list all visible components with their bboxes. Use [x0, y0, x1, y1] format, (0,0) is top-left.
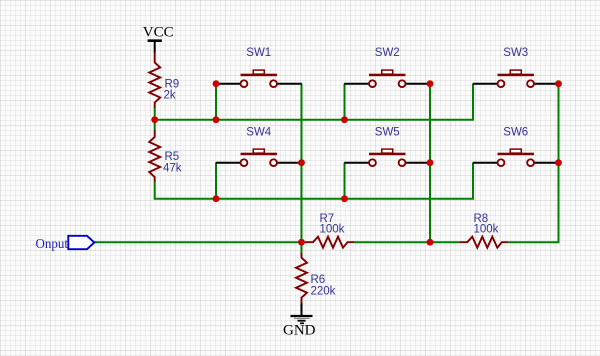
junction bus2 x=216: [213, 195, 220, 202]
svg-text:SW1: SW1: [246, 47, 271, 59]
junction at SW4 right: [298, 159, 305, 166]
switch SW4: [216, 149, 302, 166]
switch SW3: [473, 70, 559, 87]
wire SW1 left vertical: [215, 84, 217, 120]
port Onput: [36, 236, 95, 252]
svg-text:R6: R6: [311, 274, 326, 286]
wire SW5 left vertical: [344, 163, 346, 199]
svg-text:SW3: SW3: [503, 47, 528, 59]
wire vertical x=558.5 from SW3 right to main bus corner: [508, 84, 558, 243]
wire vertical x=301.5 from SW1 right to main bus: [301, 84, 303, 243]
switch SW2: [344, 70, 430, 87]
resistor R6: [296, 253, 307, 304]
svg-text:SW6: SW6: [503, 126, 528, 138]
junction at SW5 right: [427, 159, 434, 166]
wire R9 bottom stub: [154, 108, 156, 120]
junction bus1 x=344.5: [341, 116, 348, 123]
svg-text:SW5: SW5: [375, 126, 400, 138]
svg-text:VCC: VCC: [143, 25, 174, 41]
junction main bus R6/R7: [298, 239, 305, 246]
switch SW1: [216, 70, 302, 87]
junction at SW6 right: [555, 159, 562, 166]
wire SW4 left vertical: [215, 163, 217, 199]
ground symbol GND: [283, 304, 316, 339]
junction at SW3 right: [555, 80, 562, 87]
resistor R5: [149, 130, 160, 182]
svg-text:100k: 100k: [474, 224, 499, 236]
junction bus1 x=216: [213, 116, 220, 123]
switch SW5: [344, 149, 430, 166]
switch SW6: [473, 149, 559, 166]
power symbol VCC: [143, 25, 174, 53]
wire bus row1 y=119.7 with SW3-left drop: [155, 84, 473, 120]
resistor R7: [305, 237, 354, 248]
svg-text:SW2: SW2: [375, 47, 400, 59]
junction R9/R5 node: [151, 116, 158, 123]
junction at SW1 left: [213, 80, 220, 87]
wire R5 top stub: [154, 120, 156, 131]
resistor R8: [460, 237, 508, 248]
junction main bus x=430: [427, 239, 434, 246]
junction at SW2 right: [427, 80, 434, 87]
svg-text:47k: 47k: [163, 162, 182, 174]
wire R6 top stub: [301, 242, 303, 253]
svg-text:GND: GND: [283, 323, 316, 339]
wire main bus R7 to R8: [354, 241, 460, 243]
junction bus2 x=344.5: [341, 195, 348, 202]
svg-text:2k: 2k: [164, 90, 176, 102]
svg-text:220k: 220k: [311, 286, 336, 298]
svg-text:SW4: SW4: [246, 126, 272, 138]
wire SW2 left vertical: [344, 84, 346, 120]
svg-text:100k: 100k: [320, 224, 345, 236]
wire vertical x=430 from SW2 right to main bus: [429, 84, 431, 243]
svg-text:R9: R9: [165, 79, 180, 91]
wire main bus from port to R7: [94, 241, 306, 243]
svg-text:Onput: Onput: [36, 237, 69, 252]
resistor R9: [149, 52, 160, 108]
wire bus row2 y=198.7 with R5 stub and SW6-left drop: [155, 163, 473, 199]
